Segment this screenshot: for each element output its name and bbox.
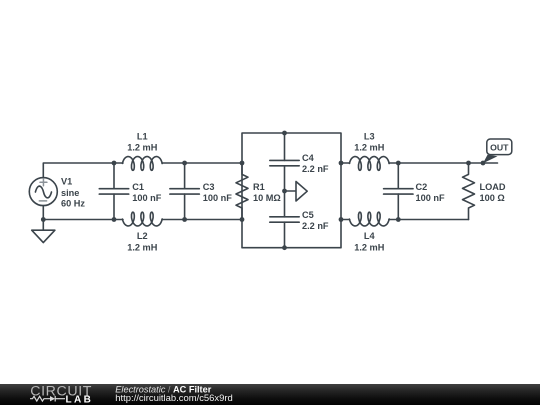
L4 labels <box>354 231 384 252</box>
wire: top rail C2 node to OUT stub <box>398 162 497 164</box>
voltage source V1 <box>29 178 57 220</box>
svg-text:C1: C1 <box>132 182 144 192</box>
svg-text:L2: L2 <box>137 231 148 241</box>
svg-text:R1: R1 <box>253 182 265 192</box>
wire: top rail L1 left lead <box>114 162 123 164</box>
svg-text:1.2 mH: 1.2 mH <box>127 143 157 153</box>
L1 labels <box>127 131 157 152</box>
svg-text:1.2 mH: 1.2 mH <box>354 242 384 252</box>
wire: top rail box right to L3 <box>341 162 350 164</box>
resistor LOAD <box>463 163 475 220</box>
capacitor C3 <box>170 163 199 220</box>
inductor L1 <box>122 157 162 171</box>
logo diode <box>50 396 65 402</box>
C1 labels <box>132 182 161 203</box>
inductor L3 <box>349 157 389 171</box>
wire: top rail L1 right to box left <box>162 162 242 164</box>
L2 labels <box>127 231 157 252</box>
svg-text:C2: C2 <box>416 182 428 192</box>
svg-text:L4: L4 <box>364 231 376 241</box>
svg-text:10 MΩ: 10 MΩ <box>253 193 281 203</box>
wire: top rail L3 to C2 node <box>389 162 398 164</box>
svg-text:V1: V1 <box>61 176 72 186</box>
wire: bottom rail V1 to C1 <box>43 219 114 221</box>
logo resistor squiggle <box>30 396 50 401</box>
inductor L2 <box>122 212 162 226</box>
capacitor C1 <box>99 163 128 220</box>
C2 labels <box>416 182 445 203</box>
svg-text:1.2 mH: 1.2 mH <box>354 143 384 153</box>
svg-text:100 nF: 100 nF <box>132 193 161 203</box>
R1 labels <box>253 182 281 203</box>
wire: top rail from V1 to C1 node <box>43 163 114 178</box>
wire: bottom rail L4 to load corner <box>389 219 469 221</box>
svg-text:C3: C3 <box>203 182 215 192</box>
svg-text:LOAD: LOAD <box>480 182 506 192</box>
capacitor C2 <box>384 163 413 220</box>
LOAD labels <box>480 182 506 203</box>
CircuitLab footer bar <box>0 384 540 405</box>
C3 labels <box>203 182 232 203</box>
svg-text:OUT: OUT <box>490 142 509 152</box>
wire: bottom rail L2 right to box left <box>162 219 242 221</box>
svg-text:1.2 mH: 1.2 mH <box>127 242 157 252</box>
svg-text:100 Ω: 100 Ω <box>480 193 505 203</box>
V1 labels <box>61 176 85 208</box>
svg-text:C4: C4 <box>302 153 315 163</box>
C4 labels <box>302 153 329 174</box>
svg-text:2.2 nF: 2.2 nF <box>302 164 329 174</box>
svg-text:L3: L3 <box>364 131 375 141</box>
wire: box rectangle loop <box>242 133 341 248</box>
wire: bottom rail box right to L4 <box>341 219 350 221</box>
C5 labels <box>302 210 329 231</box>
ground <box>32 220 55 243</box>
capacitor C5 <box>270 191 299 248</box>
svg-text:http://circuitlab.com/c56x9rd: http://circuitlab.com/c56x9rd <box>115 393 233 404</box>
inductor L4 <box>349 212 389 226</box>
svg-text:100 nF: 100 nF <box>416 193 445 203</box>
resistor R1 <box>236 163 248 220</box>
wire: bottom rail L2 left lead <box>114 219 123 221</box>
svg-text:2.2 nF: 2.2 nF <box>302 221 329 231</box>
op-amp buffer U1 <box>285 182 308 202</box>
svg-text:60 Hz: 60 Hz <box>61 199 85 209</box>
L3 labels <box>354 131 384 152</box>
svg-text:sine: sine <box>61 188 79 198</box>
svg-text:L1: L1 <box>137 131 148 141</box>
svg-text:LAB: LAB <box>66 395 94 405</box>
svg-text:C5: C5 <box>302 210 314 220</box>
capacitor C4 <box>270 133 299 191</box>
net flag OUT <box>483 139 512 163</box>
svg-text:100 nF: 100 nF <box>203 193 232 203</box>
junction dots <box>41 131 486 251</box>
